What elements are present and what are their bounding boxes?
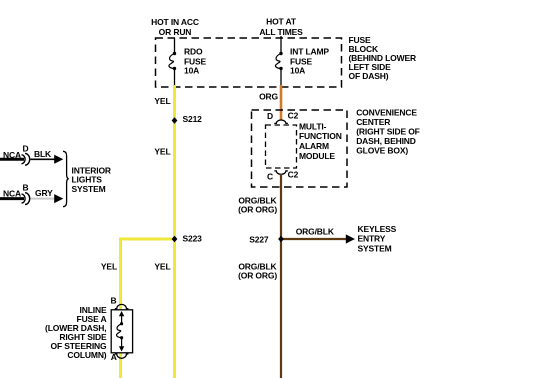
arrow to interior lights (top) [54,155,63,164]
splice S223 [172,233,203,243]
label HOT IN ACC OR RUN [151,17,199,37]
svg-text:C2: C2 [288,111,299,121]
svg-text:SYSTEM: SYSTEM [358,243,392,253]
svg-text:INT LAMP: INT LAMP [290,47,329,57]
svg-text:(OR ORG): (OR ORG) [238,271,277,281]
wire INT LAMP fuse feed (black) [280,36,282,85]
svg-text:CONVENIENCE: CONVENIENCE [356,108,417,118]
svg-text:HOT AT: HOT AT [266,16,297,26]
note INLINE FUSE A location [45,305,107,360]
svg-text:YEL: YEL [101,262,117,272]
svg-text:S223: S223 [183,233,203,243]
label ORG/BLK (OR ORG) upper [238,195,277,214]
svg-text:ENTRY: ENTRY [358,234,386,244]
inline fuse A box [111,310,132,353]
svg-text:GLOVE BOX): GLOVE BOX) [356,145,408,155]
svg-text:MULTI-: MULTI- [299,121,327,131]
svg-text:C2: C2 [288,170,299,180]
svg-text:COLUMN): COLUMN) [67,350,106,360]
svg-text:B: B [23,183,29,193]
svg-text:A: A [111,352,117,362]
connector C C2 (module bottom) [274,171,288,174]
wire brown (ORG/BLK) vertical [280,174,282,378]
svg-text:S212: S212 [183,114,203,124]
connector D C2 (module top) [274,120,288,123]
brace interior lights [63,151,69,206]
wire brown branch to keyless [281,238,347,240]
svg-text:ALL TIMES: ALL TIMES [259,27,303,37]
connector NCA D arcs [22,153,30,165]
wire orange (ORG) [280,85,283,120]
module dashed box U1 [266,125,297,168]
svg-text:BLK: BLK [34,149,52,159]
svg-text:S227: S227 [249,234,269,244]
arrow to interior lights (bottom) [54,194,63,203]
svg-text:NCA: NCA [3,150,21,160]
svg-text:OF DASH): OF DASH) [349,71,389,81]
svg-text:HOT IN ACC: HOT IN ACC [151,17,199,27]
wire NCA D stub (thick black) [0,158,24,161]
svg-text:D: D [23,144,29,154]
wire GRY (gray) [31,198,56,200]
label ORG/BLK (OR ORG) lower [238,262,277,281]
svg-text:C: C [267,171,273,181]
connector B arc (inline fuse top) [115,304,129,308]
svg-text:YEL: YEL [154,147,170,157]
svg-text:(OR ORG): (OR ORG) [238,204,277,214]
svg-text:RDO: RDO [184,47,203,57]
wire RDO fuse feed (black) [174,38,176,86]
note CONVENIENCE CENTER location [356,108,420,156]
arrow to keyless entry [346,234,355,243]
wire NCA B stub (thick black) [0,197,24,200]
svg-text:NCA: NCA [3,189,21,199]
wire BLK (black) [31,158,56,160]
svg-text:B: B [111,295,117,305]
note FUSE BLOCK location [349,35,416,81]
svg-text:ALARM: ALARM [299,141,329,151]
svg-text:10A: 10A [184,65,199,75]
svg-text:10A: 10A [290,65,305,75]
label KEYLESS ENTRY SYSTEM [358,224,397,254]
wire yellow branch vertical upper [119,238,122,311]
svg-text:MODULE: MODULE [299,151,335,161]
label HOT AT ALL TIMES [259,16,303,37]
svg-text:KEYLESS: KEYLESS [358,224,397,234]
svg-text:GRY: GRY [35,188,53,198]
svg-text:D: D [267,111,273,121]
fuse INT LAMP FUSE 10A [275,47,329,76]
label INTERIOR LIGHTS SYSTEM [72,165,111,194]
splice S227 [249,234,284,244]
svg-text:ORG: ORG [259,92,278,102]
fuse block dashed box [156,38,342,87]
svg-text:YEL: YEL [154,262,170,272]
wire yellow branch horizontal [121,238,175,241]
svg-text:YEL: YEL [154,96,170,106]
splice S212 [172,114,203,124]
convenience center dashed box [252,110,348,187]
svg-text:SYSTEM: SYSTEM [72,184,106,194]
wire yellow main vertical [173,85,176,378]
fuse RDO FUSE 10A [169,47,207,76]
label MULTI-FUNCTION ALARM MODULE [299,121,342,161]
svg-text:OR RUN: OR RUN [159,27,192,37]
fuse element inline fuse A [117,311,125,352]
connector NCA B arcs [22,193,30,205]
svg-text:ORG/BLK: ORG/BLK [296,226,335,236]
svg-text:FUNCTION: FUNCTION [299,131,342,141]
wire yellow branch vertical lower [119,353,122,378]
connector A arc (inline fuse bottom) [115,354,129,358]
